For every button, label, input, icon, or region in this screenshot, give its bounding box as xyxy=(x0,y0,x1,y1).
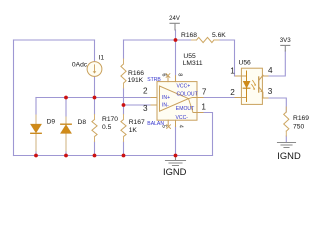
wire COLOUT to opto pin2 xyxy=(197,97,241,99)
svg-text:6: 6 xyxy=(160,73,166,76)
svg-text:2: 2 xyxy=(143,87,148,96)
no-connect X STRB xyxy=(166,74,170,78)
no-connect X BALAN xyxy=(167,125,171,129)
pin stubs IN+/IN-/COLOUT/EMOUT/VCC+ xyxy=(151,76,203,113)
svg-text:I1: I1 xyxy=(99,55,105,62)
svg-text:3V3: 3V3 xyxy=(280,37,292,44)
svg-text:1K: 1K xyxy=(129,127,138,134)
diode D9 xyxy=(31,115,41,151)
svg-text:2: 2 xyxy=(230,88,235,97)
wire EMOUT down xyxy=(197,113,213,156)
ground IGND left xyxy=(166,156,186,166)
resistor R166 xyxy=(121,64,126,83)
svg-text:191K: 191K xyxy=(128,77,144,84)
svg-text:VCC+: VCC+ xyxy=(177,83,191,89)
svg-text:U56: U56 xyxy=(239,60,252,67)
svg-text:3: 3 xyxy=(143,104,148,113)
svg-text:IN+: IN+ xyxy=(162,95,170,101)
svg-text:D9: D9 xyxy=(47,119,56,126)
resistor R168 xyxy=(197,37,214,42)
wire R169 to ground xyxy=(285,136,287,142)
svg-text:VCC-: VCC- xyxy=(176,115,189,121)
current source I1 xyxy=(87,62,102,77)
svg-text:LM311: LM311 xyxy=(183,60,203,67)
svg-text:5.6K: 5.6K xyxy=(212,32,226,39)
LED inside U56 xyxy=(243,71,250,102)
resistor R167 xyxy=(121,120,126,137)
phototransistor inside U56 xyxy=(259,75,264,98)
svg-text:24V: 24V xyxy=(169,16,180,22)
svg-text:COLOUT: COLOUT xyxy=(177,92,198,98)
resistor R170 xyxy=(92,120,97,137)
wire top-left horizontal xyxy=(14,39,95,41)
wire D8 top xyxy=(65,98,67,124)
svg-text:IN-: IN- xyxy=(162,103,169,109)
svg-text:4: 4 xyxy=(178,125,184,128)
wire left vertical xyxy=(13,40,15,156)
wire R168 to opto pin1 xyxy=(235,40,242,76)
power symbol 3V3 xyxy=(281,45,290,51)
wire VCC- drop xyxy=(175,126,177,156)
wire R166 bottom to R167 xyxy=(123,88,125,115)
light arrows xyxy=(252,80,257,89)
wire IN- net xyxy=(124,104,158,106)
wire opto pin3 to R169 xyxy=(267,98,286,112)
wire I1 bottom to R170 xyxy=(94,77,96,115)
svg-text:1: 1 xyxy=(201,103,206,112)
svg-text:IGND: IGND xyxy=(163,166,187,177)
svg-text:STRB: STRB xyxy=(147,77,161,83)
svg-text:0Adc: 0Adc xyxy=(72,61,88,68)
wire R167 bottom xyxy=(123,142,125,156)
wire IN+ net xyxy=(36,97,157,99)
wire 24V rail segment xyxy=(124,39,235,41)
power symbol 24V xyxy=(170,23,179,30)
svg-text:0.5: 0.5 xyxy=(102,124,112,131)
svg-text:R168: R168 xyxy=(181,32,197,39)
svg-text:7: 7 xyxy=(202,87,207,96)
svg-text:EMOUT: EMOUT xyxy=(176,106,194,112)
svg-text:R169: R169 xyxy=(293,115,309,122)
wire D8 bottom xyxy=(65,133,67,156)
svg-text:4: 4 xyxy=(268,66,273,75)
wire R170 bottom xyxy=(94,142,96,156)
svg-text:IGND: IGND xyxy=(277,150,301,161)
wire VCC+ riser xyxy=(175,30,177,82)
resistor leads (tan) xyxy=(95,40,287,142)
svg-text:1: 1 xyxy=(230,67,235,76)
svg-text:R170: R170 xyxy=(102,116,118,123)
wire opto pin4 to 3V3 xyxy=(267,51,285,76)
wire bottom rail xyxy=(14,155,213,157)
svg-text:R167: R167 xyxy=(129,119,145,126)
resistor R169 xyxy=(284,112,289,131)
pin stub BALAN xyxy=(167,120,169,126)
wire R166 top xyxy=(123,40,125,59)
svg-text:8: 8 xyxy=(177,73,183,76)
svg-text:U55: U55 xyxy=(183,53,196,60)
wire D9 bottom xyxy=(35,134,37,156)
svg-text:BALAN: BALAN xyxy=(147,121,164,127)
op-amp U55 LM311 body xyxy=(151,74,203,129)
svg-text:D8: D8 xyxy=(78,119,87,126)
wire I1 top lead xyxy=(94,40,96,62)
ground IGND right xyxy=(278,143,296,148)
pin stub VCC- xyxy=(175,120,177,126)
diode D8 xyxy=(61,117,71,151)
wire D9 top xyxy=(35,98,37,125)
pin stub STRB xyxy=(167,76,169,82)
optocoupler U56 body xyxy=(235,68,268,104)
svg-text:750: 750 xyxy=(293,124,304,131)
junction node dots xyxy=(34,38,177,157)
svg-text:3: 3 xyxy=(268,87,273,96)
